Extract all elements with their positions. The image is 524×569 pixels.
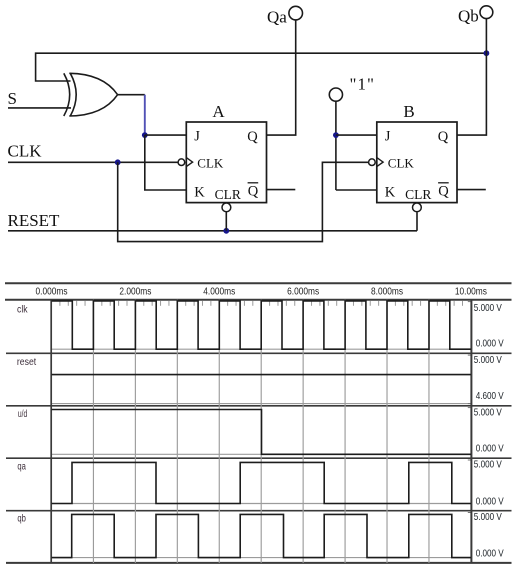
svg-text:0.000 V: 0.000 V (476, 443, 504, 455)
svg-text:5.000 V: 5.000 V (474, 406, 502, 418)
svg-text:B: B (403, 102, 414, 121)
svg-text:5.000 V: 5.000 V (474, 354, 502, 366)
svg-text:Qb: Qb (458, 7, 479, 26)
svg-text:0.000 V: 0.000 V (476, 547, 504, 559)
svg-text:10.00ms: 10.00ms (455, 285, 487, 297)
svg-text:qa: qa (17, 461, 26, 472)
svg-text:CLK: CLK (8, 141, 43, 160)
svg-text:2.000ms: 2.000ms (119, 285, 151, 297)
svg-text:CLK: CLK (388, 155, 415, 170)
svg-text:4.600 V: 4.600 V (476, 390, 504, 402)
svg-text:0.000ms: 0.000ms (36, 285, 68, 297)
svg-text:Q: Q (247, 129, 258, 145)
svg-text:CLR: CLR (215, 187, 241, 202)
svg-text:Q: Q (438, 184, 449, 200)
svg-text:CLR: CLR (405, 187, 431, 202)
svg-text:CLK: CLK (197, 155, 224, 170)
svg-text:0.000 V: 0.000 V (476, 495, 504, 507)
svg-text:A: A (212, 102, 225, 121)
svg-text:Q: Q (438, 129, 449, 145)
svg-text:"1": "1" (350, 75, 375, 94)
svg-text:RESET: RESET (8, 211, 61, 230)
svg-text:u/d: u/d (18, 409, 27, 420)
svg-text:J: J (194, 129, 200, 145)
svg-text:8.000ms: 8.000ms (371, 285, 403, 297)
svg-text:5.000 V: 5.000 V (474, 459, 502, 471)
svg-text:5.000 V: 5.000 V (474, 302, 502, 314)
svg-text:6.000ms: 6.000ms (287, 285, 319, 297)
svg-text:4.000ms: 4.000ms (203, 285, 235, 297)
svg-text:K: K (194, 184, 205, 200)
svg-text:0.000 V: 0.000 V (476, 338, 504, 350)
svg-text:clk: clk (17, 305, 28, 316)
svg-text:qb: qb (17, 514, 26, 525)
svg-text:S: S (8, 89, 17, 108)
svg-text:J: J (385, 129, 391, 145)
svg-text:K: K (385, 184, 396, 200)
svg-text:Q: Q (248, 184, 259, 200)
svg-text:Qa: Qa (267, 7, 287, 26)
svg-text:5.000 V: 5.000 V (474, 511, 502, 523)
svg-text:reset: reset (17, 357, 36, 368)
